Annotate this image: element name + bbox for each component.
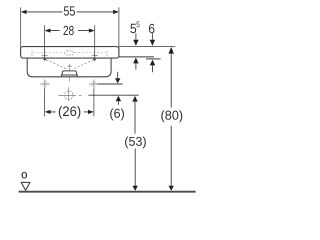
rim hidden inner edge left (dashed) xyxy=(34,52,65,54)
trap outlet crosshair xyxy=(58,87,81,101)
hidden bowl left wall (dashed) xyxy=(31,51,33,57)
fixing hole cross upper right xyxy=(92,54,98,56)
dimension 6: label xyxy=(149,24,154,33)
dimension (53): label xyxy=(125,137,146,149)
dimension 5.5: upper arrow (down) xyxy=(135,33,137,39)
dimension 28: arrowheads xyxy=(45,29,51,33)
dimension 55: arrowheads xyxy=(21,10,27,14)
dimension (53): top arrow (up) xyxy=(132,96,137,102)
dimension (26): dimension line xyxy=(47,111,93,113)
dimension (26): arrowheads xyxy=(45,110,51,114)
dimension 6: reference line xyxy=(146,58,161,60)
fixing marker arrow left xyxy=(43,59,47,61)
hidden bowl right wall (dashed) xyxy=(106,51,108,57)
dimension 55: dimension line xyxy=(23,11,117,13)
dimension 6: lower arrow (up) xyxy=(150,60,155,66)
washbasin rim (outline, front view) xyxy=(21,47,119,59)
dimension 55: extension lines xyxy=(20,7,22,50)
dimension 5.5: label xyxy=(130,24,136,33)
dimension (80): top arrow (up) xyxy=(169,47,174,54)
basin body (apron outline) xyxy=(27,58,111,77)
dimension (6): upper reference line xyxy=(98,83,123,85)
datum triangle xyxy=(21,182,30,190)
dimension 6: upper arrow (down) xyxy=(151,33,153,39)
dimension (6): label xyxy=(110,108,124,120)
dimension (80): top extension line xyxy=(119,45,175,47)
dimension 28: dimension line xyxy=(47,30,93,32)
dimension 5.5: lower arrow (up) xyxy=(133,58,138,64)
hidden interior slope right (dashed) xyxy=(72,60,94,70)
dimension (53): reference line xyxy=(88,94,138,96)
dimension (6): lower arrow (up) xyxy=(116,96,121,102)
dimension (80): label xyxy=(161,110,182,122)
dimension 55: label xyxy=(64,6,75,15)
dimension (53): bottom arrow (down) xyxy=(133,186,138,191)
dimension (26): label xyxy=(59,106,81,119)
dimension 28: extension lines xyxy=(44,25,46,58)
dimension 28: label xyxy=(64,26,74,35)
waste flange xyxy=(62,75,78,77)
hidden interior slope left (dashed) xyxy=(46,60,67,70)
lower fixing cross left xyxy=(40,80,49,89)
waste dome cover xyxy=(62,71,76,75)
dimension 5.5: reference line xyxy=(119,56,154,58)
dimension (26): extension lines xyxy=(44,88,46,116)
fixing hole cross upper left xyxy=(42,54,48,56)
dimension (80): bottom arrow (down) xyxy=(169,186,174,191)
dimension (53): dimension line xyxy=(134,102,136,186)
dimension (80): dimension line xyxy=(170,54,172,186)
lower fixing cross right xyxy=(89,80,99,89)
drain centre mark xyxy=(67,64,72,70)
rim hidden inner edge right (dashed) xyxy=(74,52,106,54)
dimension (6): upper arrow (down) xyxy=(117,72,119,79)
floor line xyxy=(19,191,196,193)
fixing marker arrow right xyxy=(93,59,97,61)
waste centre line below xyxy=(69,77,71,81)
datum zero label xyxy=(22,172,27,178)
overflow hole (dashed slot) xyxy=(65,51,74,55)
